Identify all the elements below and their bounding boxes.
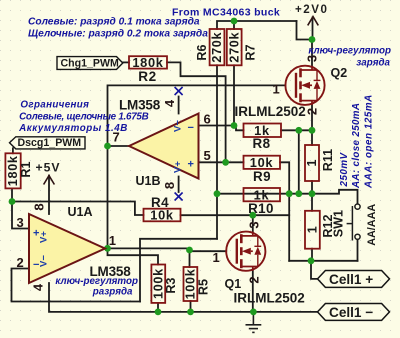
svg-text:1: 1 xyxy=(305,226,319,233)
svg-text:Ограничения: Ограничения xyxy=(20,100,89,111)
junction R9 bypass xyxy=(286,190,293,197)
junction +2V0 node xyxy=(309,36,316,43)
wire: U1B pin7 loop up and over to Q2 gate xyxy=(108,85,286,146)
svg-text:270k: 270k xyxy=(227,32,241,63)
junction U1B pin5 / R2 xyxy=(222,159,229,166)
label Cell1+ xyxy=(318,271,390,288)
wire: Chg1_PWM to R2 xyxy=(123,61,129,63)
wire: Dscg vertical from pin7 node down to U1A output node xyxy=(107,146,109,248)
resistor R3 100k (vertical) xyxy=(151,265,178,303)
junction R11 bottom / R12 top xyxy=(309,190,316,197)
svg-text:R4: R4 xyxy=(151,195,169,210)
wire: R1 bottom to +5V node xyxy=(11,188,13,201)
label Dscg1_PWM xyxy=(10,137,86,149)
switch SW1 xyxy=(347,204,361,241)
svg-text:Chg1_PWM: Chg1_PWM xyxy=(61,58,119,70)
wire: U1A pin4 down to ground rail xyxy=(49,283,318,312)
junction R1 bottom xyxy=(9,198,16,205)
junction Cell1+ node xyxy=(308,257,315,264)
svg-text:R8: R8 xyxy=(252,136,270,151)
svg-text:−: − xyxy=(188,122,194,134)
junction Q1 drain xyxy=(249,212,256,219)
resistor R4 10k xyxy=(144,195,181,222)
svg-text:IRLML2502: IRLML2502 xyxy=(235,104,306,119)
wire: R6 bottom lead down to sense node xyxy=(216,65,218,193)
label Chg1_PWM xyxy=(57,57,123,70)
svg-text:R6: R6 xyxy=(195,44,209,60)
power +2V0 xyxy=(308,17,319,26)
op-amp U1A xyxy=(29,214,105,283)
wire: R7 top lead xyxy=(233,21,235,29)
wire: Q2 drain from +2V0 node xyxy=(311,40,313,66)
resistor R6 270k (vertical) xyxy=(195,29,224,65)
svg-text:2: 2 xyxy=(246,276,261,283)
transistor Q1 IRLML2502 xyxy=(226,232,265,271)
resistor R12 1 (vertical) xyxy=(305,211,335,249)
svg-text:6: 6 xyxy=(204,111,211,126)
wire: Q1 drain up to rail xyxy=(252,215,254,231)
resistor R7 270k (vertical) xyxy=(227,29,258,65)
svg-text:Cell1 +: Cell1 + xyxy=(329,272,373,287)
svg-text:V+: V+ xyxy=(173,161,184,173)
svg-text:AAA: open 125mA: AAA: open 125mA xyxy=(364,94,375,189)
wire: U1B pin5 stub to R9 xyxy=(199,161,244,163)
svg-text:1: 1 xyxy=(273,82,280,97)
svg-text:V+: V+ xyxy=(39,231,50,243)
wire: SW1 bottom lead xyxy=(357,240,359,261)
wire: node down from R8-right to R10-right rail xyxy=(298,130,300,193)
junction R5 bottom xyxy=(187,309,194,316)
wire: sense node down to comparator loop wire xyxy=(216,194,218,239)
svg-text:Щелочные: разряд 0.2 тока заря: Щелочные: разряд 0.2 тока заряда xyxy=(28,28,208,39)
junction R8-right column top xyxy=(295,127,302,134)
wire: bottom link to Cell1+ node xyxy=(289,260,357,262)
wire: U1A pin2 stub and loop xyxy=(12,269,141,302)
wire: R7 bottom lead down to pin6 node xyxy=(233,65,235,125)
svg-text:R11: R11 xyxy=(321,149,335,171)
svg-text:R3: R3 xyxy=(164,278,178,294)
svg-text:From MC34063 buck: From MC34063 buck xyxy=(172,6,280,18)
svg-text:250mV: 250mV xyxy=(339,151,350,187)
svg-text:Q1: Q1 xyxy=(225,277,242,291)
junction Q2 source node xyxy=(309,127,316,134)
wire: U1B pin8 stub down xyxy=(178,177,180,193)
svg-text:V−: V− xyxy=(173,120,184,132)
svg-text:R1: R1 xyxy=(19,161,33,177)
svg-text:R10: R10 xyxy=(248,201,274,216)
ground xyxy=(246,312,262,333)
svg-text:2: 2 xyxy=(17,255,24,270)
svg-text:Солевые: разряд 0.1 тока заряд: Солевые: разряд 0.1 тока заряда xyxy=(28,17,200,28)
svg-text:+: + xyxy=(188,159,194,171)
wire: +2V0 symbol stem xyxy=(312,18,314,40)
wire: U1B pin6 stub and jog to R8 xyxy=(199,126,244,131)
wire: R11 bottom lead xyxy=(311,181,313,194)
wire: +5V node rail to R4 left xyxy=(12,202,144,216)
svg-text:Солевые, щелочные 1.675В: Солевые, щелочные 1.675В xyxy=(19,111,149,122)
svg-text:3: 3 xyxy=(17,215,24,230)
resistor R8 1k xyxy=(244,123,282,151)
wire: R4 right lead to Q1 drain rail xyxy=(181,214,290,216)
svg-text:разряда: разряда xyxy=(92,287,133,298)
wire: U1B pin7 stub xyxy=(108,145,130,147)
svg-text:R2: R2 xyxy=(138,69,157,84)
svg-text:270k: 270k xyxy=(210,32,224,63)
svg-text:IRLML2502: IRLML2502 xyxy=(234,291,305,306)
op-amp U1B (mirrored) xyxy=(129,114,199,179)
svg-text:R7: R7 xyxy=(244,44,258,60)
wire: jog down to +2V0 node xyxy=(297,21,313,40)
resistor R10 1k xyxy=(244,187,281,216)
svg-text:Аккумуляторы 1.4В: Аккумуляторы 1.4В xyxy=(18,123,128,134)
svg-text:ключ-регулятор: ключ-регулятор xyxy=(55,276,138,287)
wire: R12 top lead xyxy=(311,194,313,211)
svg-text:1: 1 xyxy=(213,250,220,265)
svg-text:+5V: +5V xyxy=(36,161,61,175)
wire: R5 bottom lead xyxy=(190,301,192,312)
power +5V xyxy=(44,176,55,185)
svg-text:3: 3 xyxy=(246,221,261,228)
svg-text:Cell1 −: Cell1 − xyxy=(329,305,373,320)
junction R5 top / gate wire xyxy=(186,247,193,254)
wire: branch down to R3 feeder xyxy=(108,248,159,264)
svg-text:4: 4 xyxy=(31,283,46,291)
junction U1A output xyxy=(104,245,111,252)
resistor R5 100k (vertical) xyxy=(184,267,211,301)
wire: U1A pin3 feed xyxy=(12,202,29,229)
wire: step down at R5 node to Q1 gate xyxy=(190,248,227,251)
resistor R9 10k xyxy=(244,155,281,184)
resistor R11 1 (vertical) xyxy=(305,145,335,181)
svg-text:Q2: Q2 xyxy=(331,66,348,80)
wire: R9 right lead down the right bypass xyxy=(280,162,289,260)
wire: R8 right lead to node xyxy=(281,129,312,131)
junction ground stem xyxy=(250,309,257,316)
no-connect X on U1B pin8 xyxy=(175,193,183,201)
svg-text:R5: R5 xyxy=(197,279,211,295)
svg-text:V−: V− xyxy=(39,255,50,267)
label Cell1- xyxy=(318,304,390,321)
junction R7 top xyxy=(231,18,238,25)
svg-text:180k: 180k xyxy=(132,55,163,70)
svg-text:10k: 10k xyxy=(250,155,274,170)
junction U1B pin6 / R7 xyxy=(231,122,238,129)
wire: Q1 source down to ground rail xyxy=(252,271,254,312)
svg-text:8: 8 xyxy=(32,203,47,210)
wire: R3 bottom lead xyxy=(157,303,159,312)
svg-text:4: 4 xyxy=(162,99,177,107)
wire: R11 top lead xyxy=(311,130,313,145)
svg-text:U1A: U1A xyxy=(68,205,93,219)
transistor Q2 IRLML2502 xyxy=(285,66,324,105)
wire: U1B pin4 stub up xyxy=(178,97,180,114)
wire: +2V0 feed from MC34063 to R6/R7 tops xyxy=(217,21,297,29)
wire: R12 bottom to Cell1+ node xyxy=(311,249,313,261)
junction sense node R6/R10 xyxy=(214,190,221,197)
svg-text:1: 1 xyxy=(305,159,319,166)
svg-text:SW1: SW1 xyxy=(332,210,346,237)
wire: R2 right via jogs down to pin5 xyxy=(167,62,226,162)
svg-text:8: 8 xyxy=(162,182,177,189)
resistor R1 180k (vertical) xyxy=(5,153,32,188)
svg-text:AA/AAA: AA/AAA xyxy=(366,204,378,246)
svg-text:заряда: заряда xyxy=(356,57,390,68)
svg-text:1: 1 xyxy=(109,233,116,248)
junction R8-right column bottom xyxy=(295,190,302,197)
svg-text:ключ-регулятор: ключ-регулятор xyxy=(308,46,391,57)
svg-text:R9: R9 xyxy=(253,169,271,184)
svg-text:100k: 100k xyxy=(184,268,198,299)
svg-text:+2V0: +2V0 xyxy=(295,3,328,16)
wire: +5V stem to U1A pin8 xyxy=(48,176,50,214)
junction U1B pin7 xyxy=(104,143,111,150)
wire: U1A pin1 to step node xyxy=(105,247,190,249)
wire: Cell1+ drop xyxy=(311,261,318,279)
wire: Q2 source down to 1k node xyxy=(311,105,313,131)
svg-text:Dscg1_PWM: Dscg1_PWM xyxy=(18,137,82,149)
resistor R2 180k xyxy=(129,55,167,84)
wire: comparator loop wire to U1A pin2 loop xyxy=(140,239,217,302)
wire: R5 top lead xyxy=(189,251,191,267)
wire: sense rail from R6-node to R10 and R11/R12 column xyxy=(217,193,312,195)
svg-text:AA: close 250mA: AA: close 250mA xyxy=(351,103,362,189)
no-connect X on U1B pin4 xyxy=(175,87,183,95)
wire: sense rail jog to SW1 top xyxy=(312,190,358,204)
junction R3 bottom xyxy=(155,309,162,316)
svg-text:2: 2 xyxy=(305,108,320,115)
wire: R1 top stub to Dscg1_PWM label xyxy=(12,148,14,153)
svg-text:U1B: U1B xyxy=(136,174,161,188)
svg-text:5: 5 xyxy=(204,148,211,163)
